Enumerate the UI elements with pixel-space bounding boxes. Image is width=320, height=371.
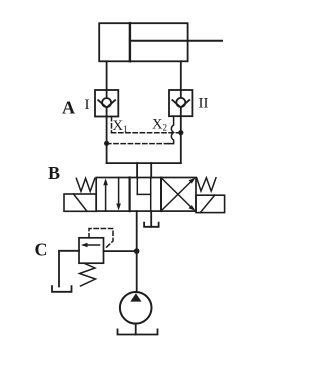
valve B right spring — [197, 178, 216, 191]
valve B right solenoid diagonal — [200, 195, 214, 212]
relief valve C spring — [80, 263, 96, 286]
valve B left position up arrow — [105, 182, 107, 212]
wire relief valve outlet to P line — [104, 250, 137, 252]
wire port A stub — [136, 163, 138, 177]
relief valve C arrow — [84, 244, 100, 246]
check valve II ball — [176, 98, 185, 107]
relief valve C box — [79, 238, 104, 263]
valve B left spring — [76, 178, 95, 191]
cylinder rod — [130, 40, 222, 42]
wire pump suction — [135, 324, 137, 335]
wire T stub below valve B — [150, 211, 152, 227]
junction X1 on right line — [178, 130, 183, 135]
tank under T port — [144, 223, 159, 227]
wire horizontal header above valve B — [107, 162, 181, 164]
cylinder piston — [129, 23, 131, 61]
check valve I through line — [106, 90, 108, 117]
wire valve I outlet down left line — [106, 117, 108, 164]
valve B body — [96, 178, 196, 212]
valve B left solenoid box — [64, 194, 96, 211]
tank under relief valve — [52, 286, 72, 292]
check valve II box — [169, 90, 192, 116]
svg-text:II: II — [199, 96, 209, 112]
valve B left position down arrow — [118, 178, 120, 208]
junction X2 on left line — [104, 141, 109, 146]
wire P line valve B to pump — [136, 211, 138, 292]
tank under pump — [118, 329, 158, 334]
svg-text:A: A — [62, 98, 75, 118]
cylinder body — [99, 23, 187, 61]
svg-text:B: B — [48, 163, 60, 183]
valve B right solenoid box — [196, 195, 225, 212]
wire port B stub — [150, 163, 152, 177]
valve B divider left — [129, 178, 131, 212]
pilot line X1 dashed horizontal to right branch — [112, 132, 181, 134]
junction relief valve on P line — [134, 248, 140, 254]
valve B centre position H passage — [136, 178, 138, 195]
pump triangle — [130, 293, 141, 301]
pump circle — [120, 292, 152, 324]
check valve I box — [95, 90, 118, 117]
check valve I seat — [98, 100, 115, 107]
pilot line X2 dashed horizontal to left branch — [107, 143, 169, 145]
svg-text:I: I — [85, 97, 90, 113]
check valve II seat — [172, 100, 189, 107]
svg-text:C: C — [35, 240, 48, 260]
wire cylinder left port down to valve I — [106, 61, 108, 90]
valve B divider right — [160, 178, 162, 212]
relief valve C pilot dashed — [89, 229, 113, 250]
wire cylinder right port down to valve II — [180, 61, 182, 90]
pilot line X2 from valve II with hop over X1 — [169, 116, 174, 143]
valve B right position crossed arrows — [162, 180, 194, 211]
check valve I ball — [102, 98, 111, 107]
check valve II through line — [180, 90, 182, 116]
wire valve II outlet down right line — [180, 116, 182, 163]
pilot line X1 dashed vertical from valve I — [111, 117, 113, 133]
valve B left solenoid diagonal — [74, 194, 88, 211]
wire relief valve drain — [59, 251, 79, 287]
